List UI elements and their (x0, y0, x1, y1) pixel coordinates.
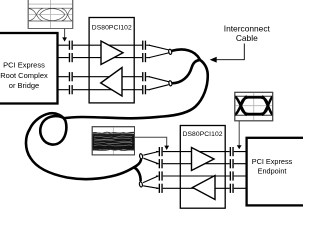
capacitor C5 (142, 40, 146, 50)
PCI Express Root Complex or Bridge box (0, 33, 58, 104)
wire: root complex TX- to U1 (58, 57, 90, 59)
op-amp buffer U1A (101, 41, 123, 65)
capacitor C13 (230, 147, 234, 157)
capacitor C6 (142, 53, 146, 63)
node B: cable connector (168, 80, 172, 86)
wire: U1 output TX- to cap (134, 57, 150, 59)
wire: U1 internal lane RX+ (89, 76, 134, 78)
capacitor C3 (69, 72, 73, 82)
capacitor C11 (159, 171, 163, 181)
wire: U1 internal lane TX+ (89, 44, 134, 46)
op-amp buffer U1B (101, 68, 122, 97)
wire: root complex TX+ to U1 (58, 44, 90, 46)
capacitor C2 (69, 53, 73, 63)
wire: TX+ converge to node A (149, 45, 169, 50)
repeater U1 DS80PCI102 box (89, 18, 134, 103)
wire: U2 internal lane RX- (180, 163, 225, 165)
wire: cap to U2 input RX- (156, 163, 180, 165)
wire: U2 internal lane TX- (180, 187, 225, 189)
wire: U2 output TX- to endpoint (225, 187, 246, 189)
wire: root complex RX+ to U1 (58, 76, 90, 78)
arrowhead onto U1 input wire (62, 37, 67, 41)
eye diagram: closed eye after cable (92, 127, 134, 155)
svg-text:PCI Express: PCI Express (3, 61, 45, 70)
capacitor C1 (69, 40, 73, 50)
capacitor C16 (230, 184, 234, 194)
wire: cable strand from node B (172, 60, 199, 83)
wire: node C fanout to C10 (143, 158, 158, 164)
repeater U2 DS80PCI102 box (180, 126, 225, 209)
capacitor C8 (142, 85, 146, 95)
wire: cap to U2 input TX+ (156, 175, 180, 177)
node C: cable connector (139, 153, 143, 159)
wire: U2 internal lane TX- redraw (180, 187, 225, 189)
arrowhead onto cable (210, 57, 217, 63)
wire: root complex RX- to U1 (58, 89, 90, 91)
wire: leader from restored eye (238, 121, 240, 146)
wire: U1 output TX+ to cap (134, 44, 150, 46)
wire: U2 internal lane TX+ redraw (180, 175, 225, 177)
wire: node C fanout to C9 (143, 152, 158, 156)
svg-text:Cable: Cable (236, 33, 258, 43)
wire: U1 output RX+ to cap (134, 76, 150, 78)
wire: cable strand from node A (172, 49, 200, 59)
wire: U2 internal lane RX- redraw (180, 163, 225, 165)
wire: U2 internal lane RX+ redraw (180, 151, 225, 153)
wire: cap to U2 input RX+ (156, 151, 180, 153)
op-amp buffer U2B (193, 176, 216, 200)
wire: leader from cable label (217, 44, 245, 60)
wire: RX+ converge to node B (149, 77, 169, 82)
wire: U1 output RX- to cap (134, 89, 150, 91)
wire: U2 output RX- to endpoint (225, 163, 246, 165)
interconnect cable main run with loop (26, 60, 208, 180)
wire: U1 internal lane RX- (89, 89, 134, 91)
capacitor C7 (142, 72, 146, 82)
wire: U2 internal lane RX+ (180, 151, 225, 153)
node D: cable connector (139, 182, 143, 188)
svg-text:DS80PCI102: DS80PCI102 (183, 131, 223, 138)
eye diagram: clean TX eye (top left) (28, 0, 72, 29)
eye diagram: restored eye at endpoint (235, 92, 273, 121)
capacitor C9 (159, 147, 163, 157)
wire: U2 output TX+ to endpoint (225, 175, 246, 177)
capacitor C15 (230, 171, 234, 181)
wire: cap to U2 input TX- (156, 187, 180, 189)
wire: RX- converge to node B (149, 85, 169, 90)
wire: cable branch to node C (134, 160, 141, 168)
capacitor C10 (159, 159, 163, 169)
node A: cable connector (168, 49, 172, 55)
wire: node D fanout to C12 (143, 186, 158, 189)
svg-text:or Bridge: or Bridge (9, 81, 39, 90)
op-amp buffer U2A (192, 148, 215, 171)
svg-text:DS80PCI102: DS80PCI102 (92, 25, 132, 32)
wire: cable branch to node D (134, 167, 141, 180)
capacitor C14 (230, 159, 234, 169)
svg-text:Root Complex: Root Complex (0, 71, 48, 80)
wire: node D fanout to C11 (143, 176, 158, 183)
wire: U2 output RX+ to endpoint (225, 151, 246, 153)
wire: leader from closed eye (135, 137, 167, 146)
capacitor C12 (159, 184, 163, 194)
svg-text:Endpoint: Endpoint (258, 166, 287, 175)
PCI Express Endpoint box (247, 138, 312, 206)
svg-text:PCI Express: PCI Express (252, 157, 293, 166)
arrowhead onto U2 input wire (164, 146, 169, 150)
wire: TX- converge to node A (149, 53, 169, 58)
wire: leader from TX eye (64, 29, 66, 39)
arrowhead onto endpoint input wire (237, 145, 242, 149)
capacitor C4 (69, 85, 73, 95)
wire: U2 internal lane TX+ (180, 175, 225, 177)
wire: U1 internal lane TX- (89, 57, 134, 59)
